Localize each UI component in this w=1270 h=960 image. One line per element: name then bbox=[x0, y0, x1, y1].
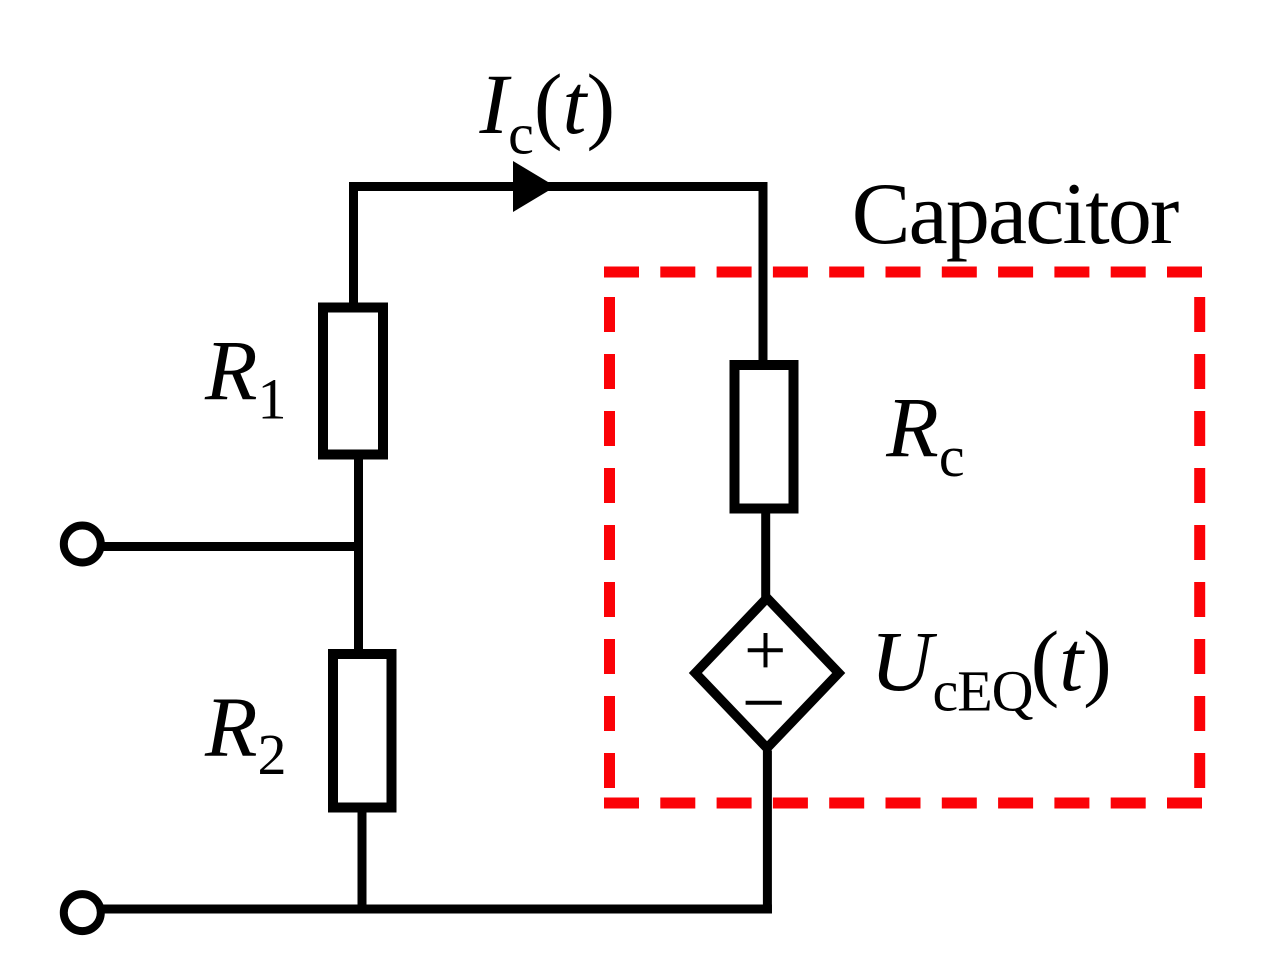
resistor R2 body bbox=[333, 654, 392, 808]
arrowhead for Ic(t) current direction bbox=[513, 161, 556, 212]
red dashed capacitor boundary: right edge bbox=[1194, 297, 1205, 788]
terminal middle left bbox=[64, 526, 101, 563]
red dashed capacitor boundary: left edge bbox=[604, 297, 615, 788]
terminal bottom left bbox=[64, 894, 101, 931]
wire Rc bottom to source top bbox=[761, 514, 770, 599]
dependent source UcEQ diamond bbox=[695, 598, 838, 748]
plus sign inside source bbox=[748, 633, 783, 667]
minus sign inside source bbox=[746, 701, 782, 705]
wire R2 bottom to bottom rail bbox=[358, 808, 367, 910]
red dashed capacitor boundary: bottom edge bbox=[604, 798, 1202, 809]
svg-text:Ic(t): Ic(t) bbox=[479, 56, 616, 167]
resistor R1 body bbox=[323, 308, 383, 455]
wire top loop: left vertical, top horizontal, right vertical bbox=[354, 187, 764, 361]
red dashed capacitor boundary: top edge bbox=[604, 267, 1202, 278]
wire middle terminal to junction bbox=[102, 542, 363, 551]
bottom rail wire bbox=[103, 905, 772, 914]
svg-text:Capacitor: Capacitor bbox=[852, 166, 1179, 263]
resistor Rc body bbox=[735, 365, 794, 509]
wire source bottom to bottom rail bbox=[763, 751, 772, 914]
wire R1 bottom to R2 top bbox=[354, 460, 363, 652]
